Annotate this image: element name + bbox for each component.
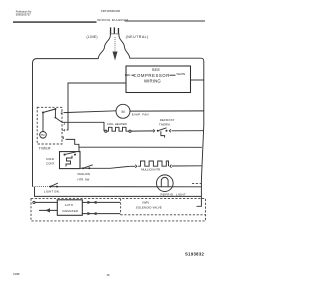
svg-text:SEE: SEE: [152, 67, 161, 72]
svg-text:REFRIG. LIGHT: REFRIG. LIGHT: [161, 192, 187, 196]
svg-text:HTR. SW.: HTR. SW.: [78, 178, 91, 182]
svg-text:TM: TM: [41, 133, 45, 137]
svg-text:COIL HEATER: COIL HEATER: [107, 122, 127, 126]
svg-text:M: M: [121, 110, 124, 114]
svg-text:3: 3: [62, 136, 64, 140]
svg-text:CONT.: CONT.: [46, 162, 55, 166]
svg-text:RED: RED: [125, 73, 131, 77]
svg-text:DEFROST: DEFROST: [160, 118, 175, 122]
svg-text:TIMER: TIMER: [39, 146, 51, 150]
svg-text:2: 2: [61, 111, 63, 115]
svg-text:(WF): (WF): [142, 201, 149, 205]
svg-text:WIRING DIAGRAM: WIRING DIAGRAM: [97, 18, 128, 22]
svg-text:COMPRESSOR: COMPRESSOR: [133, 73, 170, 78]
svg-text:MULLION: MULLION: [78, 172, 90, 176]
svg-text:COLD: COLD: [46, 157, 54, 161]
svg-text:WHITE: WHITE: [177, 72, 186, 76]
svg-text:WIRING: WIRING: [144, 79, 161, 84]
svg-text:01/98: 01/98: [13, 272, 20, 276]
svg-text:ICEMAKER: ICEMAKER: [62, 209, 78, 213]
svg-text:4: 4: [63, 128, 65, 132]
svg-text:LIGHT SW.: LIGHT SW.: [44, 190, 60, 194]
svg-text:(NEUTRAL): (NEUTRAL): [126, 35, 149, 39]
svg-text:AUTO: AUTO: [65, 203, 73, 207]
svg-text:(LINE): (LINE): [87, 35, 98, 39]
svg-text:MULLION HTR.: MULLION HTR.: [141, 167, 161, 171]
svg-text:16: 16: [107, 273, 111, 277]
svg-text:S193832: S193832: [185, 252, 205, 257]
svg-text:EVAP. FAN: EVAP. FAN: [132, 113, 149, 117]
svg-text:SOLENOID VALVE: SOLENOID VALVE: [136, 206, 162, 210]
svg-text:FRT18NRCW0: FRT18NRCW0: [101, 9, 121, 13]
svg-text:5995505757: 5995505757: [16, 13, 31, 17]
svg-text:THERM.: THERM.: [159, 123, 171, 127]
